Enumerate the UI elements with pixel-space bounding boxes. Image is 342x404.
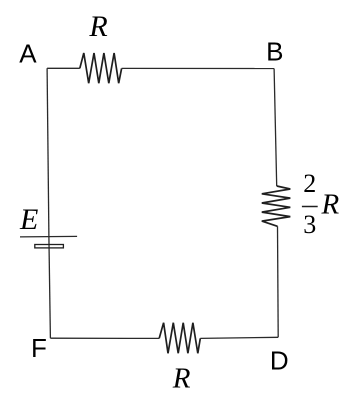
resistor R3 (bottom) (159, 323, 200, 354)
svg-text:E: E (19, 203, 38, 236)
battery E top plate (long) (20, 235, 77, 238)
battery E (20, 236, 77, 248)
wire R2 down to node D corner (277, 226, 280, 337)
wire B corner down to resistor R2 (274, 69, 277, 187)
resistor R1 (top) (80, 53, 122, 83)
svg-text:2: 2 (303, 169, 316, 198)
wire R3 to node F corner (50, 337, 159, 339)
svg-text:R: R (172, 363, 191, 395)
svg-text:A: A (19, 39, 37, 69)
svg-text:B: B (266, 36, 283, 66)
svg-text:D: D (270, 346, 289, 376)
wire A corner to resistor R1 (47, 67, 80, 69)
battery E bottom plate (short thick outlined) (35, 245, 64, 248)
wire F corner up to battery E (49, 237, 51, 339)
label 2/3 R : fraction bar (302, 206, 318, 208)
resistor R2 (right, 2/3 R) (262, 186, 291, 226)
svg-text:3: 3 (303, 210, 316, 239)
svg-text:R: R (321, 188, 340, 220)
wire D corner to resistor R3 (200, 337, 278, 338)
wire R1 to node B corner (122, 67, 275, 69)
wire battery E up to node A corner (47, 68, 49, 236)
svg-text:F: F (31, 333, 47, 363)
svg-text:R: R (88, 10, 107, 43)
